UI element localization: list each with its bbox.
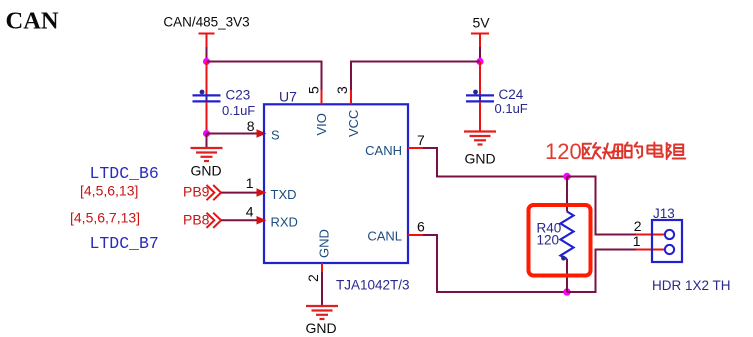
svg-text:1: 1 [246, 175, 254, 191]
svg-text:120: 120 [537, 233, 560, 248]
pin number 7 [417, 132, 425, 148]
svg-text:0.1uF: 0.1uF [222, 103, 255, 118]
svg-text:4: 4 [246, 204, 254, 220]
svg-text:TXD: TXD [271, 187, 297, 202]
pin number 8 [247, 118, 255, 134]
ground GND under C24 [464, 132, 496, 167]
svg-text:CAN/485_3V3: CAN/485_3V3 [163, 15, 249, 30]
title CAN [6, 7, 59, 34]
pin name VCC [346, 110, 361, 137]
net label LTDC_B6 [90, 164, 159, 183]
svg-text:GND: GND [464, 151, 495, 167]
svg-text:TJA1042T/3: TJA1042T/3 [336, 278, 410, 293]
svg-text:5: 5 [306, 86, 322, 94]
pin name RXD [271, 215, 298, 230]
svg-text:LTDC_B7: LTDC_B7 [90, 234, 159, 253]
char mu [603, 144, 623, 159]
pin number 3 [334, 86, 350, 94]
pin number 6 [417, 218, 425, 234]
svg-text:[4,5,6,7,13]: [4,5,6,7,13] [70, 210, 140, 226]
svg-text:RXD: RXD [271, 215, 298, 230]
wire CANL to node B [423, 235, 567, 292]
node A junction CANH [563, 173, 570, 180]
wire resistor to node B [566, 259, 568, 292]
svg-text:CANL: CANL [367, 229, 402, 244]
wire node to S pin [207, 133, 257, 135]
pin 5 stub VIO [321, 90, 323, 104]
wire PB9 to TXD [221, 192, 257, 194]
pin 6 stub CANL [408, 234, 423, 236]
power symbol CAN/485_3V3 [163, 15, 249, 48]
wire C23 lower pin [206, 102, 208, 134]
svg-text:U7: U7 [279, 89, 297, 105]
reference U7 [279, 89, 297, 105]
svg-text:CANH: CANH [365, 143, 402, 158]
pin name S [271, 128, 280, 143]
off-page connector chevron PB9 [207, 185, 222, 200]
net label PB9 [183, 184, 210, 200]
wire pin2 to ground [321, 272, 323, 306]
pin 4 arrow into RXD [257, 216, 267, 225]
pin number 4 [246, 204, 254, 220]
wire 5V to node [479, 47, 481, 62]
wire CANH to node A [423, 148, 567, 177]
wire C24 upper pin [479, 62, 481, 96]
svg-text:C23: C23 [226, 88, 251, 103]
char ou [583, 143, 601, 159]
svg-text:2: 2 [634, 218, 642, 234]
svg-text:GND: GND [305, 320, 336, 336]
svg-text:0.1uF: 0.1uF [495, 101, 528, 116]
svg-text:6: 6 [417, 218, 425, 234]
pin name VIO [314, 113, 329, 135]
wire C23 upper pin [206, 62, 208, 96]
wire power to node [206, 47, 208, 62]
svg-text:VIO: VIO [314, 113, 329, 135]
svg-text:GND: GND [317, 229, 332, 258]
svg-text:S: S [271, 128, 280, 143]
pin 1 arrow into TXD [257, 188, 267, 197]
node B junction CANL [563, 288, 570, 295]
char zu [667, 143, 686, 159]
svg-text:C24: C24 [499, 87, 524, 102]
wire node A to connector pin 2 [567, 177, 636, 235]
wire node B to connector pin 1 [567, 250, 636, 293]
svg-text:J13: J13 [653, 206, 675, 221]
wire node to ground [206, 134, 208, 148]
pin name TXD [271, 187, 297, 202]
pin stub connector pin 2 [636, 234, 665, 236]
svg-text:7: 7 [417, 132, 425, 148]
svg-text:LTDC_B6: LTDC_B6 [90, 164, 159, 183]
node junction at 5V rail [476, 58, 483, 65]
resistor R40 [537, 212, 574, 261]
svg-text:3: 3 [334, 86, 350, 94]
node junction at 3V3 rail [203, 58, 210, 65]
svg-text:CAN: CAN [6, 7, 59, 34]
svg-text:8: 8 [247, 118, 255, 134]
pin 7 stub CANH [408, 147, 423, 149]
svg-text:GND: GND [190, 163, 221, 179]
pin 2 stub GND [321, 263, 323, 272]
capacitor C23 [193, 88, 256, 119]
ground GND under U7 [305, 306, 338, 336]
node junction C23/S [203, 130, 210, 137]
pin name CANL [367, 229, 402, 244]
net label PB8 [183, 212, 210, 228]
pin number 1 of J13 [633, 233, 641, 249]
ground GND under C23 [190, 148, 222, 179]
capacitor C24 [466, 87, 528, 116]
pin name CANH [365, 143, 402, 158]
char de [625, 143, 642, 158]
svg-text:[4,5,6,13]: [4,5,6,13] [80, 183, 138, 199]
wire node to VIO pin [207, 62, 322, 91]
part value TJA1042T/3 [336, 278, 410, 293]
net label LTDC_B7 [90, 234, 159, 253]
svg-text:VCC: VCC [346, 110, 361, 137]
net label [4,5,6,13] [80, 183, 138, 199]
pin 3 stub VCC [350, 90, 352, 104]
svg-text:2: 2 [305, 274, 321, 282]
pin 8 arrow into S [257, 129, 267, 138]
pin number 5 [306, 86, 322, 94]
svg-text:1: 1 [633, 233, 641, 249]
connector J13 [652, 206, 731, 293]
pin number 2 [305, 274, 321, 282]
power symbol 5V [471, 15, 490, 48]
svg-text:5V: 5V [472, 15, 490, 31]
pin number 1 [246, 175, 254, 191]
wire C24 lower pin [479, 102, 481, 131]
annotation 120 ohm resistor text [545, 139, 685, 164]
wire node A to resistor [566, 177, 568, 212]
highlight box around R40 [529, 205, 591, 276]
wire PB8 to RXD [221, 219, 257, 221]
off-page connector chevron PB8 [207, 213, 222, 228]
char dian [647, 143, 662, 157]
svg-text:120: 120 [545, 139, 582, 164]
svg-text:HDR 1X2 TH: HDR 1X2 TH [652, 278, 731, 293]
pin number 2 of J13 [634, 218, 642, 234]
pin stub connector pin 1 [636, 249, 665, 251]
pin name GND rotated [317, 229, 332, 258]
IC U7 transceiver body [264, 104, 408, 263]
svg-text:PB9: PB9 [183, 184, 210, 200]
wire node to VCC pin [351, 62, 480, 91]
svg-text:PB8: PB8 [183, 212, 210, 228]
net label [4,5,6,7,13] [70, 210, 140, 226]
